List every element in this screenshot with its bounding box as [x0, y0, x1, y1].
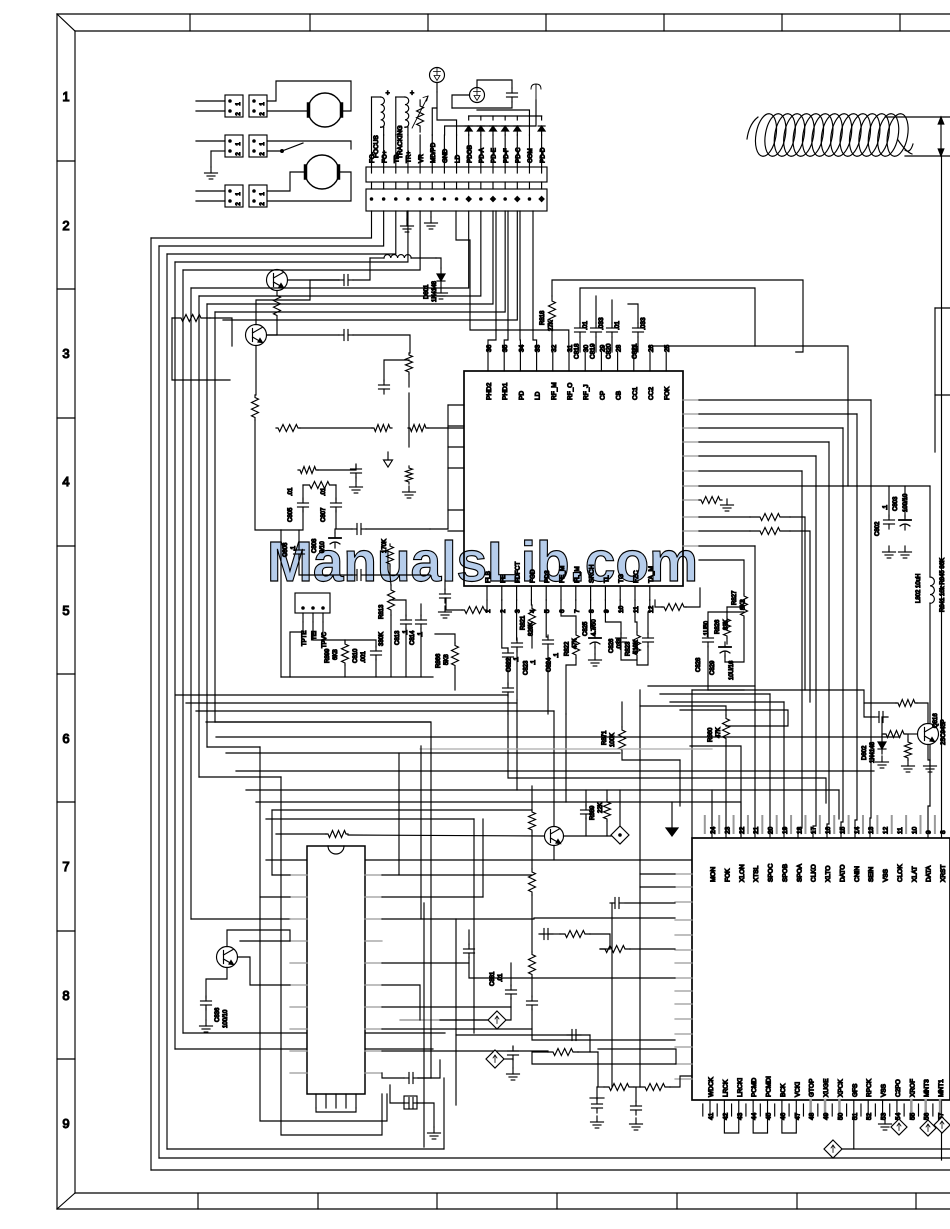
resistor R886	[604, 1084, 634, 1091]
svg-text:48: 48	[809, 1112, 816, 1120]
svg-text:23: 23	[724, 826, 731, 834]
svg-text:C805: C805	[288, 507, 294, 522]
svg-text:PD-E: PD-E	[491, 148, 498, 163]
svg-text:7: 7	[574, 609, 581, 613]
U803 top pins 24-8	[704, 816, 706, 833]
svg-text:CLOK: CLOK	[897, 864, 904, 882]
capacitor C830	[507, 683, 509, 688]
svg-text:R871: R871	[602, 730, 608, 745]
svg-text:35: 35	[502, 344, 509, 352]
svg-text:100/10: 100/10	[903, 493, 909, 512]
wire (connector fan-out)	[151, 211, 372, 238]
resistor R808	[408, 425, 428, 432]
photodiode MD801	[470, 88, 485, 103]
capacitor C828	[707, 633, 709, 638]
servo IC U801	[464, 371, 683, 586]
svg-text:XLON: XLON	[739, 864, 746, 882]
svg-text:41: 41	[708, 1112, 715, 1120]
svg-text:RPCK: RPCK	[866, 1078, 873, 1097]
svg-text:8K2: 8K2	[741, 599, 747, 610]
resistor R889	[604, 800, 611, 821]
ground (C812)	[444, 606, 446, 612]
capacitor C837	[404, 1077, 409, 1079]
capacitor C847	[567, 1034, 572, 1036]
wire (gnd pins)	[406, 211, 409, 220]
svg-text:SPOB: SPOB	[782, 864, 789, 882]
svg-text:49: 49	[823, 1112, 830, 1120]
resistor R830	[326, 831, 348, 838]
svg-text:R826: R826	[715, 619, 721, 634]
svg-text:L802 10uH: L802 10uH	[916, 574, 922, 603]
svg-text:MON: MON	[710, 867, 717, 882]
svg-text:.1: .1	[554, 652, 560, 658]
wire (Q815 cluster)	[564, 835, 612, 837]
connector J801 row A	[366, 167, 547, 182]
svg-text:+: +	[410, 90, 414, 97]
svg-text:XRST: XRST	[940, 865, 947, 882]
capacitor C827	[647, 633, 649, 638]
svg-text:13: 13	[868, 826, 875, 834]
svg-text:3: 3	[62, 346, 69, 361]
svg-text:WDCK: WDCK	[708, 1076, 715, 1097]
focus coil	[371, 97, 373, 135]
connector CN803	[225, 135, 243, 157]
capacitor C838	[404, 1102, 409, 1104]
svg-text:100K: 100K	[610, 733, 616, 747]
svg-text:47: 47	[794, 1112, 801, 1120]
svg-text:56: 56	[924, 1112, 931, 1120]
border frame	[57, 13, 950, 15]
svg-text:5: 5	[544, 609, 551, 613]
U803 left pins	[675, 873, 692, 875]
svg-text:R841 10k R845 36K: R841 10k R845 36K	[940, 558, 946, 612]
svg-text:MNT3: MNT3	[924, 1079, 931, 1097]
U801 top pins 36-25	[487, 352, 489, 371]
svg-text:TR+: TR+	[406, 151, 413, 163]
svg-text:.01: .01	[288, 487, 294, 496]
wire (connector leads)	[371, 135, 373, 167]
wire (bus drops to U803)	[754, 546, 756, 838]
svg-text:GFS: GFS	[852, 1083, 859, 1097]
resistor R892	[905, 740, 912, 760]
svg-text:.01: .01	[582, 321, 589, 330]
svg-text:510K: 510K	[634, 640, 640, 654]
wire bundle (bottom turns)	[151, 1169, 950, 1171]
capacitor C846	[512, 1046, 514, 1051]
ground (R828)	[726, 499, 728, 505]
svg-text:C803: C803	[893, 496, 899, 511]
motor M1 (focus/tracking)	[308, 93, 342, 127]
svg-text:FOCUS: FOCUS	[373, 135, 380, 158]
capacitor C843	[539, 933, 544, 935]
svg-text:.01: .01	[614, 321, 621, 330]
resistor R827	[741, 594, 748, 618]
wire (GFS to test point)	[853, 1115, 855, 1149]
svg-text:C822: C822	[507, 657, 513, 672]
svg-text:FO+: FO+	[381, 150, 388, 163]
U802 pins	[290, 874, 307, 876]
svg-text:6: 6	[559, 609, 566, 613]
svg-text:52: 52	[866, 1112, 873, 1120]
svg-text:PD-F: PD-F	[503, 148, 510, 163]
resistor R899	[342, 642, 349, 665]
svg-text:2: 2	[62, 218, 69, 233]
connector CN806	[249, 185, 267, 207]
wire (lower mesh)	[508, 714, 826, 803]
wire (Q803)	[206, 968, 227, 999]
svg-text:44: 44	[751, 1112, 758, 1120]
transistor Q802	[246, 325, 267, 346]
ground (R892)	[907, 760, 909, 766]
svg-text:6: 6	[62, 731, 69, 746]
ground (GND pin)	[406, 220, 408, 226]
svg-text:GND: GND	[442, 149, 449, 163]
svg-text:18: 18	[796, 826, 803, 834]
svg-text:1N4148: 1N4148	[432, 280, 438, 302]
svg-text:9: 9	[603, 609, 610, 613]
svg-text:20: 20	[768, 826, 775, 834]
capacitor C801	[339, 279, 344, 281]
svg-text:50: 50	[837, 1112, 844, 1120]
transistor Q816	[918, 724, 939, 745]
svg-text:4: 4	[62, 474, 69, 489]
svg-text:6K8: 6K8	[333, 649, 339, 660]
capacitor C806	[298, 545, 300, 550]
svg-text:330K: 330K	[379, 632, 385, 646]
svg-text:C802: C802	[875, 521, 881, 536]
capacitor C802a	[339, 334, 344, 336]
svg-text:55: 55	[909, 1112, 916, 1120]
svg-text:TRACKING: TRACKING	[397, 125, 404, 159]
svg-text:.033: .033	[617, 638, 623, 650]
svg-text:7: 7	[62, 859, 69, 874]
capacitor C845	[531, 996, 533, 1001]
resistor R881	[560, 931, 590, 938]
connector J801 row B	[366, 189, 547, 211]
svg-text:C2PO: C2PO	[895, 1079, 902, 1097]
wire bus (mid horizontals)	[176, 694, 508, 696]
resistor R821	[529, 605, 536, 632]
resistor R860	[723, 715, 730, 742]
RF shield terminal	[531, 84, 541, 100]
svg-text:C814: C814	[410, 630, 416, 645]
svg-text:2SC945P: 2SC945P	[941, 719, 947, 745]
resistor R807	[372, 425, 392, 432]
svg-text:42: 42	[722, 1112, 729, 1120]
wire (grey bus)	[420, 748, 712, 750]
node (diamond TP3)	[488, 1011, 506, 1029]
node (diamond TP4)	[486, 1050, 504, 1068]
svg-text:C824: C824	[547, 657, 553, 672]
svg-text:R889: R889	[590, 805, 596, 820]
wire (U803 left nets)	[531, 895, 533, 952]
resistor R831	[750, 528, 790, 535]
capacitor C823	[516, 638, 518, 643]
diode D801	[440, 268, 442, 274]
inductor L802	[930, 577, 934, 603]
wire (PD feeds)	[488, 211, 496, 352]
svg-text:19: 19	[782, 826, 789, 834]
ground (R805)	[408, 486, 410, 492]
resistor R804	[406, 353, 413, 374]
resistor R820	[462, 607, 487, 614]
resistor R829	[750, 514, 790, 521]
capacitor C814	[420, 615, 422, 620]
svg-text:43: 43	[737, 1112, 744, 1120]
svg-text:XTSL: XTSL	[753, 865, 760, 882]
svg-text:C829: C829	[710, 660, 716, 675]
svg-text:9: 9	[926, 830, 933, 834]
transistor Q801	[267, 270, 288, 291]
wire (U801-U803 staircase)	[699, 399, 871, 401]
wire (U802 side nets)	[276, 833, 326, 835]
svg-text:VSS: VSS	[881, 1083, 888, 1097]
svg-text:15: 15	[839, 826, 846, 834]
wire (TP cluster nets)	[302, 485, 304, 500]
svg-text:R866: R866	[436, 653, 442, 668]
svg-text:R818: R818	[540, 310, 546, 325]
svg-text:LRCK: LRCK	[722, 1079, 729, 1097]
svg-text:8: 8	[589, 609, 596, 613]
node (diamond pin 54)	[891, 1119, 907, 1135]
svg-text:28: 28	[616, 344, 623, 352]
svg-text:Q816: Q816	[933, 713, 939, 728]
svg-text:C807: C807	[321, 507, 327, 522]
svg-text:ManualsLib.com: ManualsLib.com	[267, 530, 698, 594]
ground (C802)	[888, 546, 890, 552]
node (diamond pin 55)	[920, 1120, 936, 1136]
transistor Q815	[545, 827, 564, 846]
diode D802	[881, 736, 883, 742]
resistor R866	[452, 643, 459, 668]
ground (arrow, U803 in)	[671, 802, 673, 828]
capacitor C842	[610, 902, 615, 904]
svg-text:PCMD: PCMD	[751, 1078, 758, 1097]
wire (Q816 cluster)	[906, 733, 918, 735]
ground (switch)	[210, 167, 212, 173]
svg-text:RF_O: RF_O	[567, 383, 574, 400]
U801 left pins	[448, 404, 464, 406]
svg-text:D802: D802	[862, 745, 868, 760]
resistor R823	[634, 632, 641, 658]
svg-text:COM: COM	[527, 148, 534, 163]
svg-text:PD-A: PD-A	[479, 147, 486, 163]
U801 bottom pins 1-12	[486, 586, 488, 600]
svg-text:CNIN: CNIN	[854, 866, 861, 882]
capacitor C844	[468, 944, 470, 949]
svg-text:SEIN: SEIN	[868, 867, 875, 882]
wire (R829 out)	[699, 516, 750, 518]
resistor R812	[387, 544, 394, 566]
capacitor C819	[595, 323, 597, 328]
capacitor C831	[510, 985, 512, 990]
svg-text:PCMDI: PCMDI	[766, 1076, 773, 1097]
ground (C804)	[355, 481, 357, 487]
svg-text:45: 45	[766, 1112, 773, 1120]
wire (edge stub)	[934, 308, 936, 452]
svg-text:RF_J: RF_J	[583, 384, 590, 400]
svg-text:C813: C813	[395, 630, 401, 645]
svg-text:22K: 22K	[598, 802, 604, 813]
svg-text:16: 16	[825, 826, 832, 834]
resistor R828	[699, 497, 722, 504]
capacitor C804	[355, 464, 357, 469]
svg-text:9: 9	[62, 1116, 69, 1131]
capacitor C825	[594, 633, 596, 638]
svg-text:VSS: VSS	[883, 868, 890, 882]
capacitor C849	[635, 1101, 637, 1106]
svg-text:C810: C810	[353, 648, 359, 663]
transistor Q803	[217, 947, 238, 968]
resistor R883	[529, 869, 536, 895]
svg-text:47K: 47K	[573, 638, 579, 649]
connector CN804	[249, 135, 267, 157]
svg-text:CC2: CC2	[648, 387, 655, 400]
resistor R871	[619, 727, 626, 753]
ground (net K)	[433, 1127, 435, 1133]
svg-text:PD-C: PD-C	[515, 147, 522, 163]
capacitor C809	[352, 528, 357, 530]
svg-text:.033: .033	[598, 317, 605, 330]
svg-text:100/10: 100/10	[223, 1009, 229, 1028]
connector CN801	[225, 95, 243, 117]
svg-text:21: 21	[753, 826, 760, 834]
motor M2 (sled)	[305, 155, 339, 189]
svg-text:33: 33	[535, 344, 542, 352]
svg-text:GTOP: GTOP	[809, 1079, 816, 1097]
capacitor C850	[511, 88, 513, 93]
ground (C803)	[904, 546, 906, 552]
svg-text:XROF: XROF	[909, 1079, 916, 1097]
svg-text:.033: .033	[640, 317, 647, 330]
capacitor C851	[874, 716, 879, 718]
ground (C836)	[205, 1020, 207, 1026]
svg-text:FOK: FOK	[664, 386, 671, 400]
resistor R806	[276, 425, 300, 432]
variable resistor VR801	[417, 100, 424, 132]
svg-text:CP: CP	[599, 391, 606, 400]
svg-text:11: 11	[633, 606, 640, 613]
dimension arrow	[885, 116, 950, 118]
ground (Q816)	[929, 760, 931, 766]
capacitor C807	[335, 498, 337, 503]
wire (C837/C838)	[382, 1073, 404, 1078]
resistor R813	[388, 585, 395, 615]
capacitor C803	[904, 515, 906, 520]
svg-text:R821: R821	[521, 615, 527, 630]
capacitor C810	[375, 646, 377, 651]
wire (U801 bottom cluster)	[486, 600, 488, 610]
ground (D801)	[440, 287, 442, 293]
test point header TP801	[295, 593, 330, 613]
svg-text:TPTE: TPTE	[302, 631, 308, 646]
svg-text:11: 11	[897, 827, 904, 834]
wire (U802 bottom stubs)	[315, 1094, 317, 1108]
capacitor C826	[620, 633, 622, 638]
capacitor C821	[637, 323, 639, 328]
ground (D802)	[881, 756, 883, 762]
svg-text:XPCK: XPCK	[837, 1079, 844, 1097]
wire (Q801/Q802)	[288, 279, 340, 281]
svg-text:R899: R899	[325, 648, 331, 663]
svg-text:LD: LD	[535, 391, 542, 400]
ground (arrow mid)	[387, 452, 389, 460]
svg-text:XLTO: XLTO	[825, 866, 832, 882]
svg-text:CB: CB	[616, 391, 623, 400]
svg-text:DATA: DATA	[926, 865, 933, 882]
svg-text:34: 34	[518, 344, 525, 352]
svg-text:MNT1: MNT1	[938, 1079, 945, 1097]
svg-text:47K: 47K	[716, 727, 722, 738]
ground (C849)	[635, 1118, 637, 1124]
svg-text:RF_M: RF_M	[551, 382, 558, 400]
capacitor C820	[611, 323, 613, 328]
svg-text:46: 46	[780, 1112, 787, 1120]
svg-text:R827: R827	[732, 590, 738, 605]
connector CN805	[225, 185, 243, 207]
svg-text:8: 8	[940, 830, 947, 834]
svg-text:R822: R822	[565, 641, 571, 656]
capacitor C822	[507, 648, 509, 653]
wire bundle (left verticals)	[150, 238, 152, 1170]
svg-text:CC1: CC1	[632, 387, 639, 400]
capacitor C841	[585, 805, 587, 810]
ground (MD/PD return)	[430, 217, 432, 223]
svg-text:5: 5	[62, 603, 69, 618]
svg-text:SPOA: SPOA	[796, 863, 803, 882]
capacitor C811	[352, 574, 357, 576]
svg-text:C836: C836	[215, 1007, 221, 1022]
resistor R822	[573, 632, 580, 658]
capacitor C818	[579, 323, 581, 328]
resistor R805	[406, 466, 413, 484]
resistor R885	[548, 1049, 578, 1056]
wire (left resistor rows)	[300, 427, 372, 429]
resistor R890	[896, 700, 917, 707]
svg-text:BCK: BCK	[780, 1083, 787, 1097]
svg-text:14: 14	[854, 826, 861, 834]
svg-text:VR: VR	[418, 154, 425, 163]
svg-text:+: +	[386, 90, 390, 97]
svg-text:CLKO: CLKO	[811, 864, 818, 882]
capacitor C805	[302, 498, 304, 503]
wire (grey bus 2)	[400, 1019, 488, 1021]
svg-text:24: 24	[710, 826, 717, 834]
resistor R884	[529, 952, 536, 977]
resistor R809	[298, 467, 318, 474]
svg-text:SPOC: SPOC	[768, 863, 775, 882]
svg-text:PHD2: PHD2	[486, 382, 493, 400]
wire (C818-C821 nets)	[552, 280, 803, 352]
svg-text:DATO: DATO	[839, 865, 846, 882]
wire (motors and switch)	[267, 110, 307, 112]
svg-text:51: 51	[852, 1112, 859, 1120]
resistor R826	[724, 617, 731, 638]
node (diamond bottom)	[824, 1140, 842, 1158]
wire (laser diode net)	[432, 108, 437, 135]
resistor R801	[274, 291, 281, 320]
svg-text:MD/PD: MD/PD	[430, 142, 437, 163]
svg-text:R813: R813	[379, 604, 385, 619]
capacitor C848	[596, 1099, 598, 1104]
svg-text:33K: 33K	[724, 619, 730, 630]
svg-text:VCKI: VCKI	[794, 1082, 801, 1097]
svg-text:XLAT: XLAT	[911, 866, 918, 882]
ground (C825)	[594, 654, 596, 660]
ground (pin 53 VSS)	[884, 1118, 886, 1124]
resistor R887	[640, 1084, 670, 1091]
svg-text:.001: .001	[361, 651, 367, 663]
